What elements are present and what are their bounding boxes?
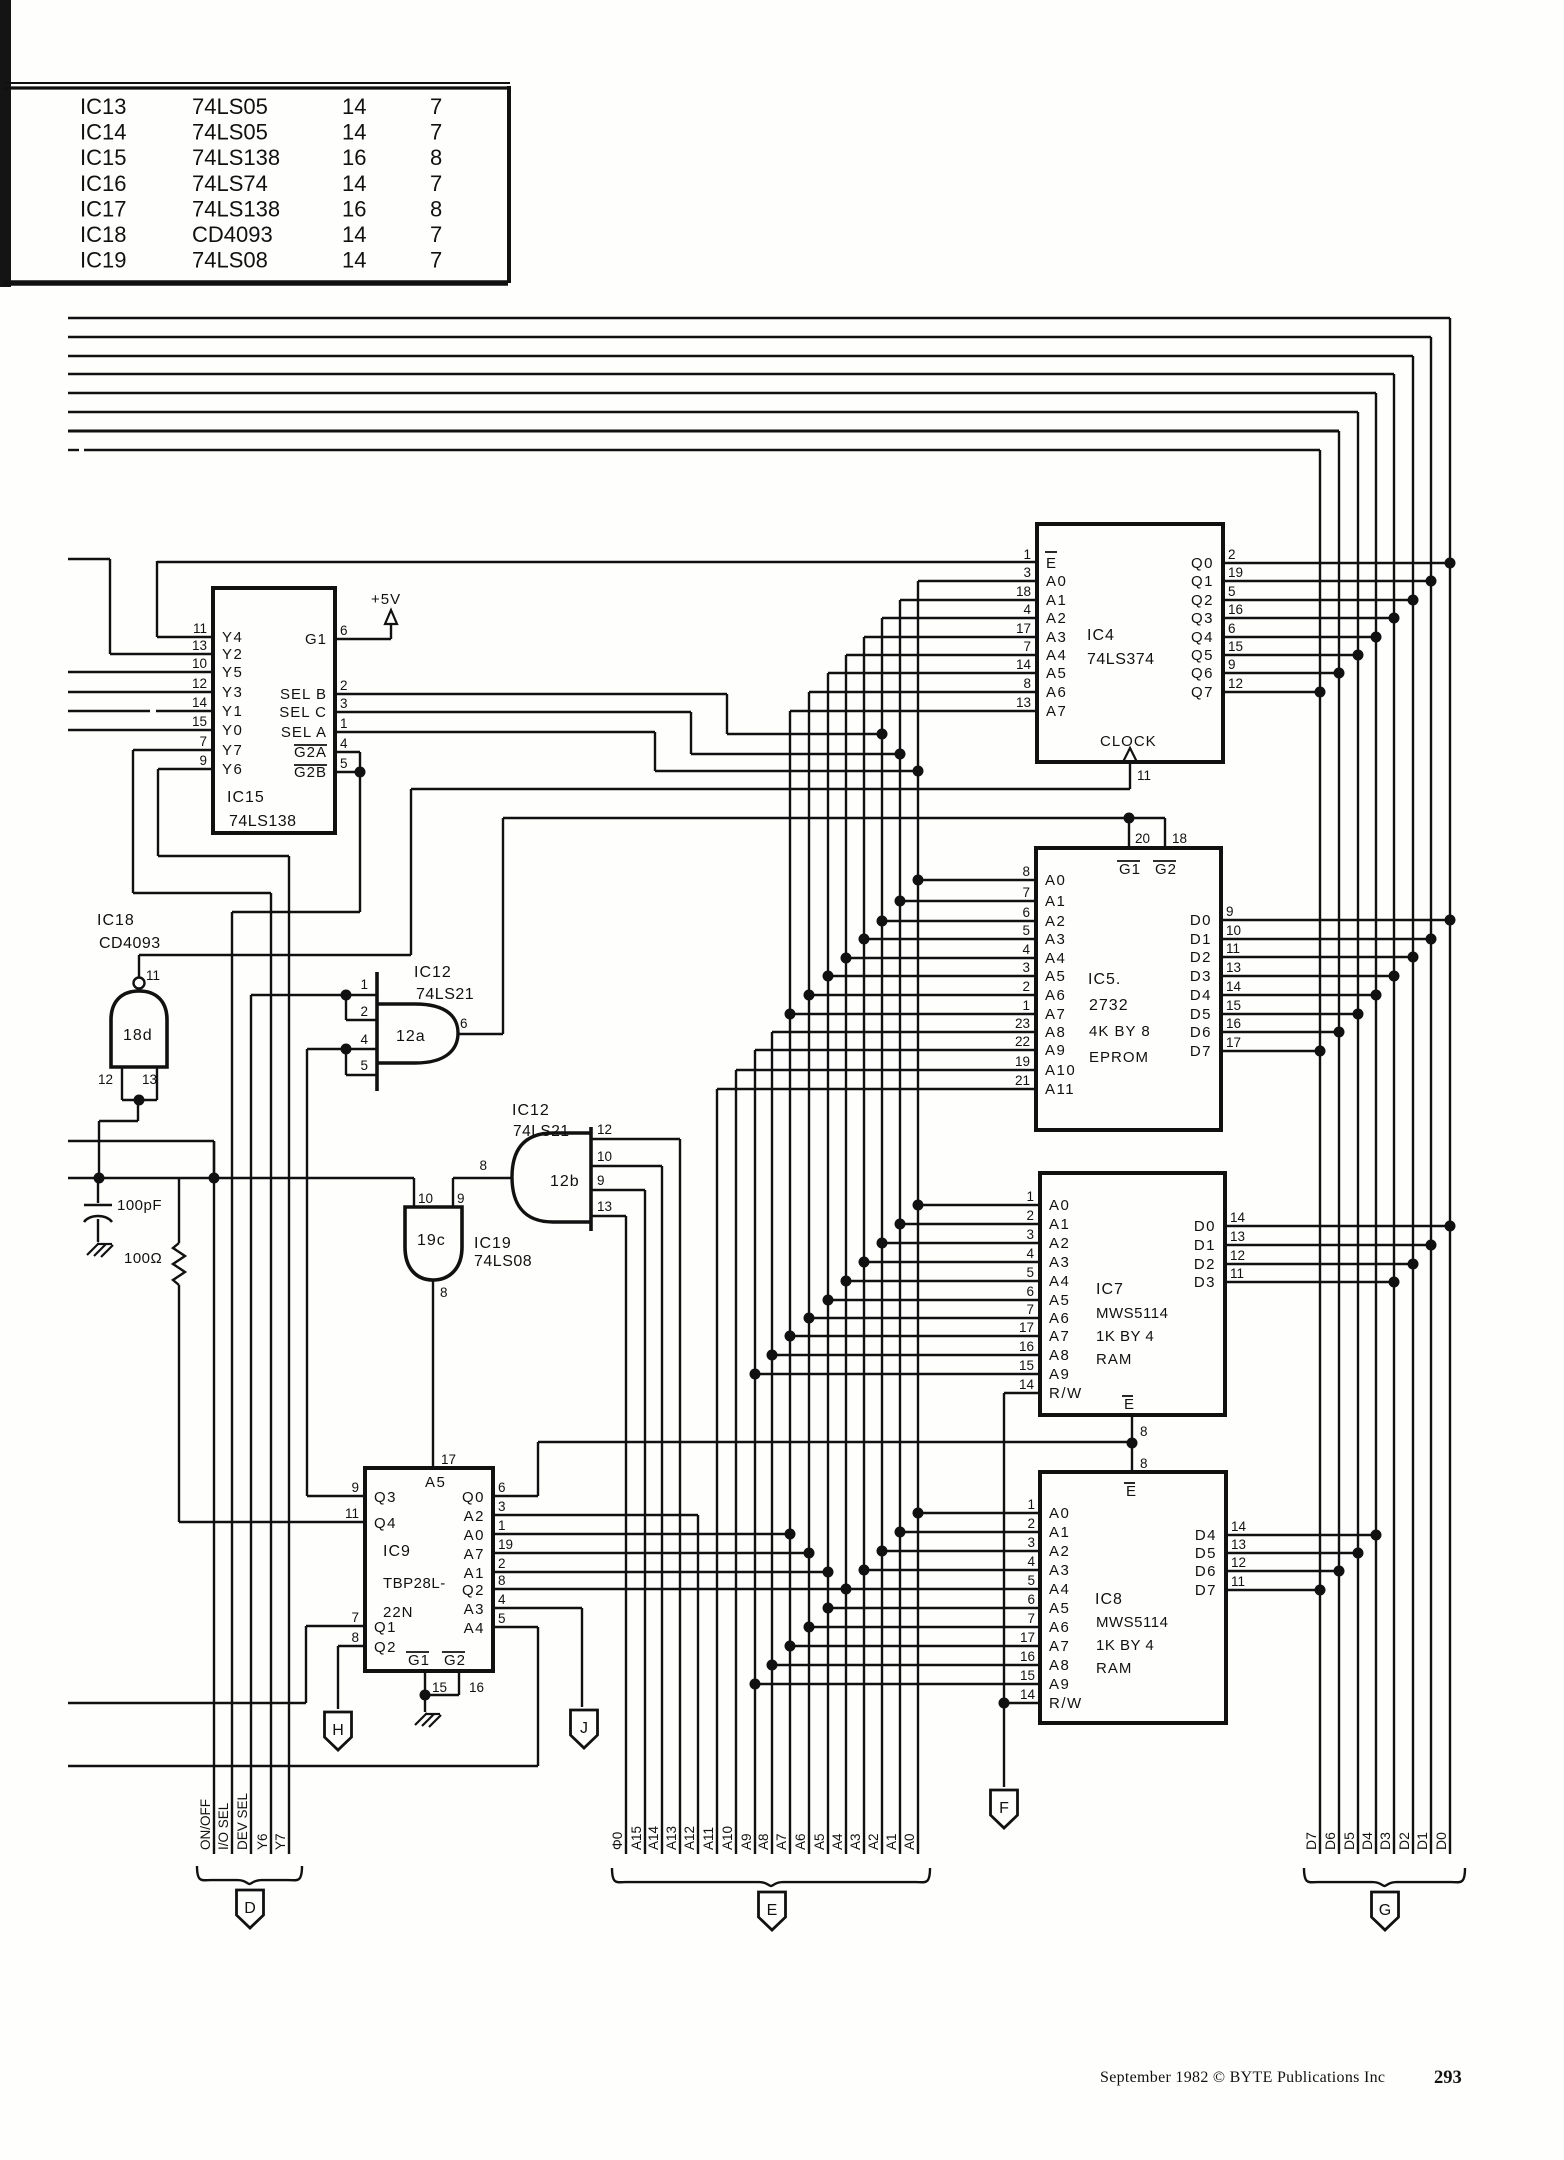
svg-text:12: 12 [1230, 1248, 1245, 1263]
svg-text:2: 2 [498, 1556, 506, 1571]
svg-text:74LS05: 74LS05 [192, 94, 268, 119]
svg-text:8: 8 [430, 145, 442, 170]
svg-text:Y5: Y5 [222, 664, 243, 681]
svg-text:9: 9 [597, 1173, 605, 1188]
svg-text:H: H [332, 1722, 344, 1739]
svg-text:D6: D6 [1322, 1832, 1338, 1850]
wire data bus D2 vertical [1396, 356, 1413, 1854]
svg-text:17: 17 [441, 1452, 456, 1467]
svg-text:293: 293 [1434, 2068, 1462, 2088]
svg-text:16: 16 [342, 145, 366, 170]
svg-text:A8: A8 [756, 1833, 771, 1850]
svg-text:CD4093: CD4093 [192, 222, 273, 247]
gate 18d CD4093 NAND (oscillator) [98, 968, 167, 1087]
svg-text:A1: A1 [1049, 1524, 1070, 1541]
svg-text:16: 16 [469, 1680, 484, 1695]
svg-text:A7: A7 [1049, 1638, 1070, 1655]
wire address bus A7 vertical [774, 711, 790, 1854]
wire address bus A10 vertical [720, 1070, 736, 1854]
svg-text:2: 2 [1022, 979, 1030, 994]
svg-text:1: 1 [360, 977, 368, 992]
wire IC8 A5-A9 inputs from bus with junctions [750, 1603, 1041, 1690]
wire SEL B net to A2 bus [335, 694, 888, 740]
svg-text:IC18: IC18 [80, 222, 126, 247]
svg-text:11: 11 [1226, 941, 1240, 956]
svg-text:1: 1 [1026, 1189, 1034, 1204]
svg-text:19c: 19c [417, 1232, 446, 1249]
svg-text:A6: A6 [793, 1833, 808, 1850]
svg-text:14: 14 [342, 222, 366, 247]
svg-text:18d: 18d [123, 1027, 153, 1044]
svg-text:74LS08: 74LS08 [474, 1253, 532, 1270]
wire Y5 input from left edge [68, 671, 213, 673]
svg-text:IC14: IC14 [80, 120, 126, 145]
wire address bus A12 vertical [682, 1515, 698, 1854]
svg-text:Q2: Q2 [462, 1582, 485, 1599]
svg-text:SEL B: SEL B [280, 686, 327, 703]
svg-text:14: 14 [192, 695, 208, 710]
svg-text:Φ0: Φ0 [610, 1832, 625, 1850]
wire address bus A4 vertical [830, 655, 846, 1854]
connector H flag [325, 1712, 352, 1750]
svg-text:A7: A7 [774, 1833, 789, 1850]
wire IC5 G1 and G2 enable stubs [1129, 818, 1165, 848]
wire IC9 Q1 to left edge [68, 1626, 365, 1703]
svg-text:12: 12 [597, 1122, 612, 1137]
svg-text:IC18: IC18 [97, 912, 135, 929]
svg-text:74LS138: 74LS138 [229, 813, 297, 830]
svg-text:A6: A6 [1049, 1619, 1070, 1636]
svg-text:E: E [1126, 1483, 1136, 1500]
svg-text:11: 11 [146, 968, 160, 983]
svg-text:D7: D7 [1195, 1582, 1217, 1599]
resistor R 100ohm [124, 1178, 185, 1522]
svg-text:IC19: IC19 [80, 248, 126, 273]
IC IC5 2732 4K BY 8 EPROM box [1015, 831, 1242, 1130]
svg-text:A0: A0 [1049, 1197, 1070, 1214]
wire data bus D2 horizontal (top) [68, 355, 1413, 357]
svg-text:D4: D4 [1195, 1527, 1217, 1544]
svg-text:Y6: Y6 [255, 1833, 270, 1850]
svg-text:11: 11 [345, 1506, 359, 1521]
svg-text:A5: A5 [425, 1474, 446, 1491]
wire IC9 Q2 (left) to connector H [338, 1646, 365, 1709]
wire data bus D3 vertical [1377, 374, 1394, 1854]
svg-text:I/O SEL: I/O SEL [216, 1802, 231, 1850]
svg-text:16: 16 [1019, 1339, 1034, 1354]
svg-text:5: 5 [340, 756, 348, 771]
wire IC5 A0-A11 inputs from address bus with junctions [717, 875, 1036, 1090]
svg-text:IC4: IC4 [1087, 627, 1115, 644]
svg-text:6: 6 [1027, 1592, 1035, 1607]
svg-text:15: 15 [1228, 639, 1243, 654]
svg-text:8: 8 [1140, 1424, 1148, 1439]
svg-text:1K BY 4: 1K BY 4 [1096, 1328, 1154, 1345]
wire address bus A13 vertical [664, 1139, 680, 1854]
svg-text:6: 6 [340, 623, 348, 638]
svg-text:74LS138: 74LS138 [192, 196, 280, 221]
svg-text:D: D [244, 1900, 256, 1917]
svg-text:3: 3 [1026, 1227, 1034, 1242]
svg-text:74LS21: 74LS21 [513, 1123, 569, 1140]
svg-text:12: 12 [98, 1072, 113, 1087]
svg-text:19: 19 [1015, 1054, 1030, 1069]
svg-text:9: 9 [1226, 904, 1234, 919]
svg-text:A0: A0 [1045, 872, 1066, 889]
svg-text:A1: A1 [464, 1565, 485, 1582]
parts list table IC13-IC19 [0, 0, 510, 287]
svg-text:A3: A3 [464, 1601, 485, 1618]
svg-text:16: 16 [1020, 1649, 1035, 1664]
wire 12b output pin 8 to 19c pin 9 [453, 1178, 512, 1207]
svg-text:15: 15 [1019, 1358, 1034, 1373]
label IC18 CD4093 [97, 912, 161, 952]
svg-text:12: 12 [1228, 676, 1243, 691]
wire IC9 A3 down to connector J [493, 1608, 582, 1707]
svg-text:IC15: IC15 [80, 145, 126, 170]
svg-text:3: 3 [498, 1499, 506, 1514]
label IC12 74LS21 (for 12b) [512, 1102, 569, 1140]
svg-text:10: 10 [597, 1149, 612, 1164]
svg-text:A3: A3 [1049, 1254, 1070, 1271]
svg-text:18: 18 [1172, 831, 1187, 846]
footer page text [1100, 2068, 1462, 2088]
svg-text:4: 4 [1023, 602, 1031, 617]
svg-text:Q4: Q4 [1191, 629, 1214, 646]
svg-text:D3: D3 [1194, 1274, 1216, 1291]
svg-text:7: 7 [1026, 1302, 1034, 1317]
svg-text:IC7: IC7 [1096, 1281, 1124, 1298]
svg-text:17: 17 [1020, 1630, 1035, 1645]
wire data bus D6 horizontal (top) [68, 430, 1339, 433]
wire Y6 vertical to connector D [255, 893, 271, 1854]
svg-text:D7: D7 [1190, 1043, 1212, 1060]
svg-text:7: 7 [199, 734, 207, 749]
svg-text:SEL A: SEL A [281, 724, 327, 741]
svg-text:Y1: Y1 [222, 703, 243, 720]
svg-text:14: 14 [1016, 657, 1032, 672]
IC IC8 MWS5114 1K BY 4 RAM box [1020, 1472, 1247, 1723]
wire E enable net: IC9 Q0 to IC7/IC8 E pins (pin 8) [493, 1415, 1148, 1500]
svg-text:15: 15 [1020, 1668, 1035, 1683]
wire 12a output pin 6 up to IC5 G1/G2 [458, 813, 1165, 1035]
svg-text:A10: A10 [720, 1826, 735, 1850]
svg-text:D6: D6 [1195, 1563, 1217, 1580]
wire data bus D1 vertical [1414, 337, 1431, 1854]
svg-text:DEV SEL: DEV SEL [235, 1792, 250, 1850]
svg-text:ON/OFF: ON/OFF [198, 1799, 213, 1850]
svg-text:14: 14 [1231, 1519, 1247, 1534]
svg-text:16: 16 [1228, 602, 1243, 617]
svg-text:13: 13 [1226, 960, 1241, 975]
wire I/O SEL vertical to connector D [216, 912, 232, 1854]
wire IC9 A1 / IC8 A3 row with junctions on A5 and A3 [493, 1565, 1040, 1578]
svg-text:10: 10 [1226, 923, 1241, 938]
svg-text:Q2: Q2 [374, 1639, 397, 1656]
wire IC9 Q3 feedback to 12a pins 4 and 5 [307, 1044, 377, 1497]
svg-text:6: 6 [1022, 905, 1030, 920]
svg-text:7: 7 [351, 1610, 359, 1625]
svg-text:A4: A4 [464, 1620, 485, 1637]
svg-text:1: 1 [498, 1518, 506, 1533]
svg-text:15: 15 [432, 1680, 447, 1695]
svg-text:A4: A4 [830, 1833, 845, 1850]
svg-text:A11: A11 [701, 1827, 716, 1850]
connector J flag [571, 1710, 598, 1748]
svg-text:4: 4 [1022, 942, 1030, 957]
wire R/W net: IC7 and IC8 R/W pins down to connector F [999, 1393, 1041, 1787]
wire IC9 G1+G2 to ground [420, 1671, 460, 1712]
svg-text:16: 16 [342, 196, 366, 221]
wire clock net: 18d output to IC4 CLOCK pin 11 [139, 762, 1130, 977]
svg-text:A0: A0 [902, 1833, 917, 1850]
wire address bus A1 vertical [884, 600, 900, 1854]
svg-text:IC15: IC15 [227, 789, 265, 806]
svg-text:14: 14 [1226, 979, 1242, 994]
svg-text:1: 1 [1023, 547, 1031, 562]
svg-text:A11: A11 [1045, 1081, 1075, 1098]
svg-text:Y0: Y0 [222, 722, 243, 739]
svg-text:D1: D1 [1190, 931, 1212, 948]
svg-text:D3: D3 [1377, 1832, 1393, 1850]
svg-text:CD4093: CD4093 [99, 935, 161, 952]
brace and connector D flag [197, 1866, 302, 1928]
svg-text:Q0: Q0 [462, 1489, 485, 1506]
brace and connector G flag [1304, 1868, 1465, 1930]
wire address bus A3 vertical [848, 637, 864, 1854]
wire data bus D6 vertical [1322, 431, 1339, 1854]
svg-text:4: 4 [340, 736, 348, 751]
power +5V symbol at IC15 G1 pin 6 [335, 591, 401, 639]
svg-text:A9: A9 [1045, 1042, 1066, 1059]
wire ON/OFF vertical to connector D [198, 1141, 214, 1854]
svg-text:7: 7 [1023, 639, 1031, 654]
svg-text:74LS05: 74LS05 [192, 120, 268, 145]
svg-text:4K BY 8: 4K BY 8 [1089, 1023, 1151, 1040]
svg-text:3: 3 [1027, 1535, 1035, 1550]
wire address bus A11 vertical [701, 1089, 717, 1854]
svg-text:Q2: Q2 [1191, 592, 1214, 609]
wire IC9 A0 to A7 bus junction [493, 1529, 796, 1540]
wire address bus A9 vertical [739, 1050, 755, 1854]
svg-text:A2: A2 [866, 1833, 881, 1850]
svg-text:MWS5114: MWS5114 [1096, 1305, 1168, 1322]
svg-text:J: J [580, 1720, 588, 1737]
svg-text:6: 6 [1026, 1284, 1034, 1299]
wire data bus D4 vertical [1359, 393, 1376, 1854]
svg-text:A10: A10 [1045, 1062, 1076, 1079]
wire Y7 output: pin 7 down and over to Y7 vertical [133, 750, 271, 893]
wire IC9 Q2 (right) / IC8 A4 row with junction on A4 [493, 1584, 1040, 1595]
svg-text:15: 15 [192, 714, 207, 729]
svg-text:10: 10 [192, 656, 207, 671]
svg-text:A7: A7 [1049, 1328, 1070, 1345]
svg-text:IC17: IC17 [80, 196, 126, 221]
svg-text:A14: A14 [646, 1825, 661, 1850]
svg-text:6: 6 [1228, 621, 1236, 636]
svg-text:D4: D4 [1190, 987, 1212, 1004]
wire Y3 input from left edge [68, 691, 213, 693]
svg-text:G1: G1 [408, 1652, 430, 1669]
svg-text:September 1982 © BYTE Publicat: September 1982 © BYTE Publications Inc [1100, 2069, 1385, 2086]
svg-text:A8: A8 [1049, 1657, 1070, 1674]
svg-text:IC19: IC19 [474, 1235, 512, 1252]
svg-text:R/W: R/W [1049, 1385, 1083, 1402]
svg-text:A1: A1 [1046, 592, 1067, 609]
svg-text:7: 7 [430, 248, 442, 273]
svg-text:A3: A3 [1045, 931, 1066, 948]
svg-text:Q3: Q3 [1191, 610, 1214, 627]
wire IC4 A0-A7 inputs from address bus (staircase corners) [790, 581, 1037, 711]
svg-text:Q3: Q3 [374, 1489, 397, 1506]
wire 18d inputs 12+13 tied, down to oscillator line [99, 1067, 157, 1178]
svg-text:A5: A5 [1045, 968, 1066, 985]
svg-text:8: 8 [1022, 864, 1030, 879]
svg-text:6: 6 [460, 1016, 468, 1031]
wire IC8 D4-D7 outputs to data bus with junctions [1226, 1530, 1382, 1596]
brace and connector E flag [612, 1868, 930, 1930]
svg-text:13: 13 [1016, 695, 1031, 710]
svg-text:D1: D1 [1414, 1832, 1430, 1850]
svg-text:IC9: IC9 [383, 1543, 411, 1560]
svg-text:D0: D0 [1433, 1832, 1449, 1850]
wire data bus D4 horizontal (top) [68, 392, 1376, 394]
svg-text:IC13: IC13 [80, 94, 126, 119]
svg-text:RAM: RAM [1096, 1351, 1132, 1368]
svg-text:A0: A0 [1049, 1505, 1070, 1522]
svg-text:1K BY 4: 1K BY 4 [1096, 1637, 1154, 1654]
svg-text:9: 9 [351, 1480, 359, 1495]
wire data bus D5 horizontal (top) [68, 411, 1358, 413]
wire 19c output pin 8 down to IC9 pin 17 (A5) [432, 1280, 434, 1468]
wire IC9 A2 output becoming A12 bus vertical [493, 1514, 698, 1516]
svg-text:8: 8 [430, 196, 442, 221]
svg-text:F: F [999, 1800, 1009, 1817]
svg-text:Y3: Y3 [222, 684, 243, 701]
svg-text:A1: A1 [1045, 893, 1066, 910]
svg-text:D0: D0 [1190, 912, 1212, 929]
svg-text:Y6: Y6 [222, 761, 243, 778]
wire DEV SEL vertical to connector D [235, 995, 251, 1854]
svg-text:IC16: IC16 [80, 171, 126, 196]
svg-text:A0: A0 [464, 1527, 485, 1544]
svg-text:E: E [1046, 555, 1058, 572]
svg-text:A5: A5 [1046, 665, 1067, 682]
svg-text:D5: D5 [1190, 1006, 1212, 1023]
gate 12a 74LS21 AND [360, 972, 467, 1091]
svg-text:2: 2 [1027, 1516, 1035, 1531]
svg-text:19: 19 [1228, 565, 1243, 580]
svg-text:12: 12 [192, 676, 207, 691]
svg-text:13: 13 [597, 1199, 612, 1214]
ground below IC9 G1/G2 [415, 1713, 441, 1727]
svg-text:7: 7 [430, 120, 442, 145]
svg-text:2: 2 [1026, 1208, 1034, 1223]
svg-text:1: 1 [340, 716, 348, 731]
svg-text:Q1: Q1 [374, 1619, 397, 1636]
svg-text:12a: 12a [396, 1028, 426, 1045]
svg-text:19: 19 [498, 1537, 513, 1552]
wire IC5 D0-D7 outputs to data bus verticals with junctions [1221, 915, 1456, 1057]
wire address bus A0 vertical [902, 581, 918, 1854]
wire Y2 input (from left edge, corner down to pin 13) [68, 559, 213, 654]
svg-text:A8: A8 [1045, 1024, 1066, 1041]
svg-text:A6: A6 [1045, 987, 1066, 1004]
svg-text:2: 2 [1228, 547, 1236, 562]
svg-text:A2: A2 [1049, 1543, 1070, 1560]
svg-text:5: 5 [1026, 1265, 1034, 1280]
wire IC7 D0-D3 outputs to data bus with junctions [1225, 1221, 1456, 1288]
wire IC4 Q0-Q7 outputs to data bus verticals with junctions [1223, 558, 1456, 698]
wire IC9 Q4 from 100ohm resistor [179, 1521, 365, 1523]
svg-text:7: 7 [1022, 885, 1030, 900]
gate 12b 74LS21 AND (mirrored) [479, 1122, 612, 1231]
wire SEL A net to A0 bus [335, 732, 924, 777]
svg-text:D2: D2 [1194, 1256, 1216, 1273]
svg-text:D6: D6 [1190, 1024, 1212, 1041]
svg-text:17: 17 [1226, 1035, 1241, 1050]
wire ON/OFF feeder from left edge [68, 1141, 214, 1178]
wire data bus D0 horizontal (top) [68, 317, 1450, 319]
svg-text:+5V: +5V [371, 591, 401, 608]
svg-text:20: 20 [1135, 831, 1150, 846]
svg-text:4: 4 [1027, 1554, 1035, 1569]
svg-text:A6: A6 [1046, 684, 1067, 701]
svg-text:12b: 12b [550, 1173, 580, 1190]
svg-text:D0: D0 [1194, 1218, 1216, 1235]
svg-text:A6: A6 [1049, 1310, 1070, 1327]
wire 12b input pin 10 from A14 bus [591, 1165, 662, 1167]
svg-text:13: 13 [1230, 1229, 1245, 1244]
svg-text:D5: D5 [1195, 1545, 1217, 1562]
svg-text:G1: G1 [305, 631, 327, 648]
svg-text:6: 6 [498, 1480, 506, 1495]
svg-text:A4: A4 [1045, 950, 1066, 967]
wire address bus A5 vertical [812, 673, 828, 1854]
svg-text:A2: A2 [1045, 913, 1066, 930]
svg-text:74LS08: 74LS08 [192, 248, 268, 273]
svg-text:9: 9 [457, 1191, 465, 1206]
wire Y1 input from left edge [68, 710, 213, 712]
svg-text:IC12: IC12 [414, 964, 452, 981]
svg-text:8: 8 [498, 1573, 506, 1588]
svg-text:D5: D5 [1341, 1832, 1357, 1850]
wire IC7 A0-A9 inputs from address bus with junctions [750, 1200, 1041, 1380]
svg-text:9: 9 [199, 753, 207, 768]
svg-text:10: 10 [418, 1191, 433, 1206]
svg-text:1: 1 [1027, 1497, 1035, 1512]
svg-text:A15: A15 [629, 1826, 644, 1850]
svg-text:8: 8 [440, 1285, 448, 1300]
svg-text:A3: A3 [1049, 1562, 1070, 1579]
svg-text:Y7: Y7 [222, 742, 243, 759]
svg-text:8: 8 [479, 1158, 487, 1173]
svg-text:IC12: IC12 [512, 1102, 550, 1119]
svg-text:A1: A1 [884, 1833, 899, 1850]
svg-text:D2: D2 [1396, 1832, 1412, 1850]
svg-text:11: 11 [1137, 768, 1151, 783]
svg-text:3: 3 [1023, 565, 1031, 580]
svg-text:E: E [767, 1902, 778, 1919]
wire Y7 vertical to connector D [273, 856, 289, 1854]
svg-text:100pF: 100pF [117, 1197, 162, 1214]
wire address bus Φ0 vertical [610, 1216, 626, 1854]
svg-text:3: 3 [340, 696, 348, 711]
svg-text:14: 14 [342, 248, 366, 273]
svg-text:G2: G2 [444, 1652, 466, 1669]
svg-text:A5: A5 [1049, 1600, 1070, 1617]
ground below 100pF capacitor [87, 1243, 113, 1257]
